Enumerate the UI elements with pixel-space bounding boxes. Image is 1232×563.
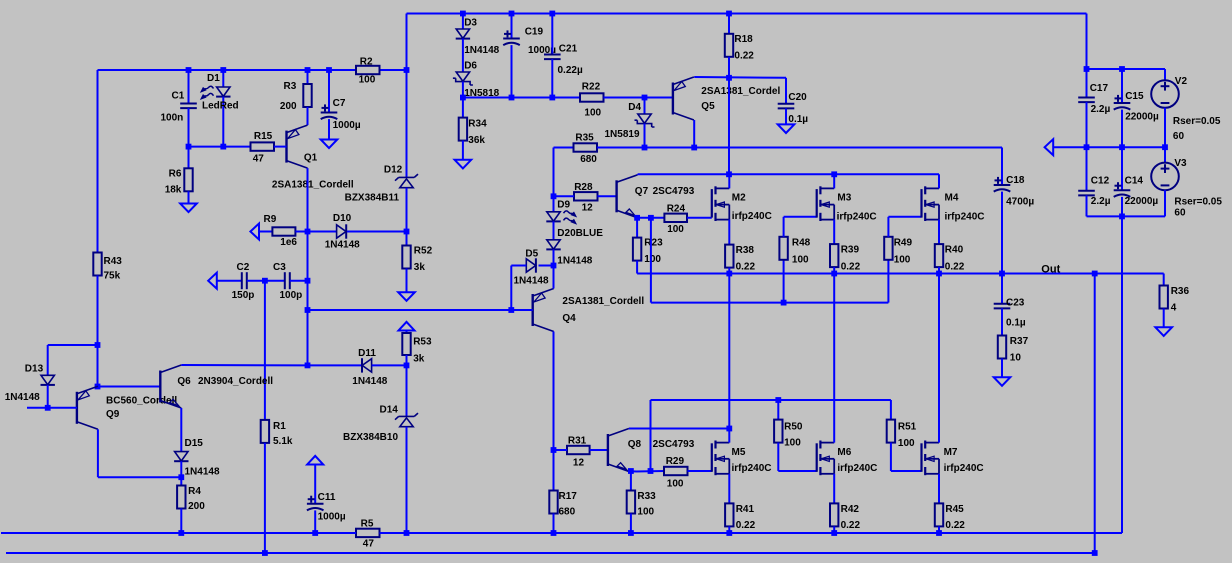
resistor R41 [725, 503, 733, 526]
resistor R28 [574, 192, 598, 200]
svg-text:R51: R51 [898, 422, 917, 433]
svg-text:1000µ: 1000µ [333, 120, 361, 131]
wire D11 to R53 column [372, 364, 407, 366]
wire +rail right drop [1086, 14, 1088, 70]
svg-text:R42: R42 [841, 504, 860, 515]
capacitor C12 [1086, 147, 1088, 191]
svg-text:R43: R43 [104, 256, 123, 267]
diode D3 [462, 14, 464, 30]
node R50 junction [775, 397, 781, 403]
svg-text:R34: R34 [468, 119, 487, 130]
node Q8-M5 drain junction [726, 426, 732, 432]
svg-text:680: 680 [580, 154, 597, 165]
wire R41 to rail [728, 526, 730, 533]
wire row97 horizontal [463, 97, 580, 99]
svg-text:R49: R49 [894, 238, 913, 249]
svg-text:D3: D3 [464, 18, 477, 29]
node Q6 collector row junction [305, 363, 311, 369]
wire R48 to M3 gate [783, 217, 785, 237]
svg-text:R17: R17 [559, 491, 578, 502]
svg-text:C3: C3 [273, 262, 286, 273]
wire Q9 base stub [27, 407, 77, 409]
svg-text:C14: C14 [1125, 176, 1144, 187]
node R41 rail junction [726, 530, 732, 536]
node R18 bottom junction [726, 75, 732, 81]
resistor R40 [935, 244, 943, 267]
wire feedback rail [6, 552, 1095, 554]
svg-text:V2: V2 [1175, 76, 1188, 87]
svg-text:C19: C19 [525, 27, 544, 38]
node C2C3 right junction [305, 278, 311, 284]
svg-text:1N5819: 1N5819 [605, 129, 640, 140]
svg-text:60: 60 [1173, 131, 1185, 142]
resistor R36 [1160, 286, 1168, 309]
svg-text:R33: R33 [637, 491, 656, 502]
svg-text:R3: R3 [284, 81, 297, 92]
node C1 bottom junction [186, 144, 192, 150]
svg-text:1N4148: 1N4148 [352, 376, 387, 387]
node R4 rail junction [178, 530, 184, 536]
wire M3 drain [833, 174, 835, 188]
wire mid power row [1053, 146, 1165, 148]
svg-text:Rser=0.05: Rser=0.05 [1174, 197, 1222, 208]
wire R9 to D10 [295, 231, 307, 233]
svg-text:D10: D10 [333, 213, 352, 224]
svg-text:Rser=0.05: Rser=0.05 [1173, 116, 1221, 127]
wire D5 anode drop [510, 266, 512, 311]
resistor R15 [251, 142, 275, 150]
MOSFET M3 [816, 189, 818, 218]
node Q8 emitter junction [628, 468, 634, 474]
svg-text:100p: 100p [280, 290, 303, 301]
node R31 junction [551, 447, 557, 453]
svg-text:100: 100 [644, 254, 661, 265]
wire minus rail drop [1121, 216, 1123, 533]
wire R33 to rail [630, 514, 632, 534]
svg-text:100: 100 [359, 75, 376, 86]
node R17 rail junction [551, 530, 557, 536]
node C21 bottom junction [549, 95, 555, 101]
svg-text:4: 4 [1171, 303, 1177, 314]
resistor R24 [664, 214, 687, 222]
MOSFET M7 [920, 443, 922, 472]
svg-text:1000µ: 1000µ [318, 512, 346, 523]
flag above C11 [307, 456, 323, 465]
transistor Q4 [532, 294, 534, 326]
node C14 bottom junction [1119, 214, 1125, 220]
wire M5 source [728, 474, 730, 504]
svg-text:R28: R28 [574, 182, 593, 193]
transistor Q5 [672, 83, 674, 115]
svg-text:2N3904_Cordell: 2N3904_Cordell [198, 376, 273, 387]
wire M6 source [833, 474, 835, 504]
resistor R23 [636, 218, 638, 238]
svg-text:irfp240C: irfp240C [732, 463, 772, 474]
resistor R33 [630, 471, 632, 491]
node C17 top junction [1084, 66, 1090, 72]
svg-text:Q6: Q6 [177, 376, 191, 387]
resistor R6 [188, 147, 190, 169]
wire Q1 collector vertical [307, 168, 309, 231]
svg-text:2.2µ: 2.2µ [1091, 104, 1111, 115]
wire R39 to out bus [833, 267, 835, 273]
wire Q1col to C2C3 [307, 232, 309, 281]
wire R36 to ground [1163, 309, 1165, 328]
capacitor C21 [551, 14, 553, 55]
wire R45 to rail [938, 526, 940, 533]
svg-text:R38: R38 [736, 245, 755, 256]
svg-text:C12: C12 [1091, 176, 1110, 187]
flag above R53 [399, 322, 415, 331]
wire M7 drain [938, 274, 940, 443]
wire output bus [637, 273, 1164, 275]
svg-text:M7: M7 [944, 447, 958, 458]
wire M4 source [938, 220, 940, 245]
transistor Q6 [159, 371, 161, 403]
svg-text:5.1k: 5.1k [273, 436, 293, 447]
node R38 out junction [726, 271, 732, 277]
svg-text:D6: D6 [464, 61, 477, 72]
resistor R22 [580, 93, 604, 101]
node V2-V3 junction [1162, 144, 1168, 150]
wire row70 left vertical [97, 70, 99, 253]
node C17 bottom junction [1084, 144, 1090, 150]
node M2 drain junction [726, 171, 732, 177]
flag input C2 [208, 273, 217, 289]
wire R22 to Q5 base [604, 97, 673, 99]
transistor Q9 [76, 392, 78, 424]
wire Q6 collector row [181, 364, 307, 366]
wire R29 to M5 gate [688, 470, 712, 472]
resistor R29 [664, 467, 688, 475]
capacitor C14 [1121, 147, 1123, 190]
node C2-C3 junction [247, 280, 285, 282]
wire Q5 collector vertical [693, 120, 695, 148]
wire R17 to rail [553, 514, 555, 534]
wire lower gate bus [651, 399, 891, 401]
svg-text:R5: R5 [361, 519, 374, 530]
capacitor C17 [1086, 69, 1088, 98]
node R2-D12 junction [404, 67, 410, 73]
svg-text:M6: M6 [837, 447, 851, 458]
svg-text:BC560_Cordell: BC560_Cordell [106, 396, 177, 407]
svg-text:2SC4793: 2SC4793 [653, 439, 695, 450]
wire D12 column upper [406, 14, 408, 71]
svg-text:D20BLUE: D20BLUE [557, 228, 603, 239]
svg-text:1N4148: 1N4148 [5, 392, 40, 403]
diode D5 [526, 259, 535, 272]
svg-text:D5: D5 [525, 249, 538, 260]
svg-text:2.2µ: 2.2µ [1091, 196, 1111, 207]
resistor R50 [777, 400, 779, 420]
wire M3 source [833, 220, 835, 245]
wire R24 to M2 gate [687, 217, 712, 219]
node C1 top junction [186, 67, 192, 73]
wire R1 column lower [264, 443, 266, 553]
node D13 bottom junction [45, 405, 51, 411]
wire R1 column upper [264, 281, 266, 420]
node D5 junction [551, 263, 557, 269]
svg-text:0.22: 0.22 [841, 262, 861, 273]
svg-text:Out: Out [1041, 264, 1060, 276]
wire drain bus [638, 173, 939, 175]
node D4 top junction [642, 95, 648, 101]
resistor R53 [406, 331, 408, 334]
svg-text:C11: C11 [318, 492, 336, 503]
svg-text:R4: R4 [188, 486, 201, 497]
resistor R48 [779, 237, 787, 260]
flag input R9 [250, 224, 259, 240]
wire R50 to M6 gate [777, 443, 779, 471]
wire Q7 emitter row [637, 217, 664, 219]
wire row146 horizontal [189, 146, 251, 148]
resistor R17 [553, 450, 555, 491]
wire Q4 collector vertical [553, 332, 555, 451]
svg-text:M3: M3 [837, 193, 851, 204]
ground under R37 [994, 377, 1011, 386]
wire R31 leads [554, 449, 568, 451]
wire M4 drain [938, 174, 940, 188]
voltage source V3 [1151, 163, 1179, 191]
node C21 top junction [549, 11, 555, 17]
svg-text:1N4148: 1N4148 [325, 240, 360, 251]
wire Q1col to Q6 collector row [307, 310, 309, 365]
svg-text:R29: R29 [666, 456, 685, 467]
svg-text:R41: R41 [736, 504, 755, 515]
node D5 drop junction [508, 307, 514, 313]
voltage source V2 [1151, 80, 1179, 108]
wire R28 leads [554, 195, 575, 197]
wire Q9-Q6 base link [98, 386, 161, 388]
wire R23 to out bus [636, 261, 638, 274]
svg-text:V3: V3 [1174, 158, 1187, 169]
wire V3 bottom lead [1164, 190, 1166, 216]
svg-text:R23: R23 [644, 238, 663, 249]
node R39 out junction [831, 271, 837, 277]
node D14 rail junction [404, 530, 410, 536]
wire +rail row69 [1087, 68, 1166, 70]
svg-text:irfp240C: irfp240C [837, 463, 877, 474]
svg-text:2SA1381_Cordel: 2SA1381_Cordel [701, 86, 780, 97]
svg-text:0.1µ: 0.1µ [1006, 318, 1026, 329]
svg-text:200: 200 [280, 101, 297, 112]
wire R43 to Q9 node [97, 276, 99, 387]
svg-text:100: 100 [784, 438, 801, 449]
svg-text:R24: R24 [667, 204, 686, 215]
svg-text:1N4148: 1N4148 [464, 45, 499, 56]
capacitor C20 [785, 78, 787, 104]
svg-text:R50: R50 [784, 422, 803, 433]
diode D11 [361, 358, 363, 372]
svg-text:0.1µ: 0.1µ [788, 114, 808, 125]
svg-text:Q1: Q1 [304, 153, 318, 164]
svg-text:C17: C17 [1090, 83, 1109, 94]
resistor R1 [261, 420, 269, 443]
wire Q5 emitter row [694, 76, 786, 79]
wire R35 corner vertical [553, 148, 555, 197]
wire Q4 base row [308, 309, 533, 311]
node D10 row junction [305, 229, 311, 235]
svg-text:0.22: 0.22 [841, 520, 861, 531]
wire top +rail [407, 13, 1087, 15]
svg-text:680: 680 [559, 507, 576, 518]
node R1 feedback junction [262, 550, 268, 556]
svg-text:C20: C20 [788, 92, 807, 103]
node Q5 collector junction [691, 145, 697, 151]
wire M2 drain [728, 174, 730, 188]
resistor R35 [574, 143, 598, 151]
wire upper gate bus [651, 302, 889, 304]
svg-text:100: 100 [637, 507, 654, 518]
svg-text:R52: R52 [414, 246, 433, 257]
svg-text:R2: R2 [360, 57, 373, 68]
svg-text:D13: D13 [25, 364, 44, 375]
resistor R39 [830, 244, 838, 267]
node C19 top junction [509, 11, 515, 17]
MOSFET M2 [711, 189, 713, 218]
resistor R4 [177, 486, 185, 509]
transistor Q1 [285, 131, 287, 163]
svg-text:18k: 18k [165, 185, 182, 196]
wire out to R36 [1163, 274, 1165, 286]
capacitor C23 [1001, 274, 1003, 304]
node lower gate feed junction [648, 468, 654, 474]
wire D15 to R4 [180, 461, 182, 485]
node C19 bottom junction [509, 95, 515, 101]
svg-text:C23: C23 [1006, 298, 1025, 309]
svg-text:Q9: Q9 [106, 409, 120, 420]
capacitor C15 [1121, 69, 1123, 103]
ground under R52 [398, 292, 415, 301]
svg-text:1N4148: 1N4148 [185, 467, 220, 478]
svg-text:R18: R18 [734, 34, 753, 45]
svg-text:0.22µ: 0.22µ [558, 65, 583, 76]
node M3 drain junction [831, 171, 837, 177]
diode D6 schottky [462, 39, 464, 72]
wire Q4 emitter vertical [553, 266, 555, 289]
svg-text:R9: R9 [264, 214, 277, 225]
svg-text:R22: R22 [582, 82, 601, 93]
svg-text:BZX384B11: BZX384B11 [345, 193, 400, 204]
svg-text:LedRed: LedRed [202, 101, 239, 112]
svg-text:2SA1381_Cordell: 2SA1381_Cordell [272, 180, 354, 191]
svg-text:C21: C21 [559, 44, 578, 55]
svg-text:1N4148: 1N4148 [514, 276, 549, 287]
wire negative rail left [1, 532, 356, 534]
svg-text:3k: 3k [413, 354, 425, 365]
resistor R5 [356, 529, 380, 537]
svg-text:M4: M4 [945, 193, 959, 204]
transistor Q8 [607, 434, 609, 466]
wire V2 top lead [1164, 69, 1166, 80]
resistor R52 [406, 232, 408, 246]
svg-text:R15: R15 [254, 131, 273, 142]
wire Q1col to base row [307, 281, 309, 310]
svg-text:R48: R48 [792, 238, 811, 249]
node D6-R34 junction [460, 95, 466, 101]
wire R42 to rail [833, 526, 835, 533]
wire Q9 collector path [97, 429, 99, 477]
diode D4 schottky zener [644, 98, 646, 115]
node Q9 emitter junction [95, 384, 101, 390]
node D1 top junction [220, 67, 226, 73]
capacitor C3 [284, 272, 286, 289]
resistor R34 [462, 98, 464, 118]
wire D14 to rail [406, 427, 408, 533]
svg-text:100: 100 [898, 438, 915, 449]
node D1 bottom junction [220, 144, 226, 150]
wire R51 to M7 gate [890, 443, 892, 471]
svg-text:R45: R45 [945, 504, 964, 515]
svg-text:Q4: Q4 [562, 313, 576, 324]
svg-text:irfp240C: irfp240C [945, 212, 985, 223]
wire R48 riser [783, 260, 785, 303]
MOSFET M4 [920, 189, 922, 218]
svg-text:R40: R40 [945, 245, 964, 256]
svg-text:C7: C7 [333, 98, 346, 109]
svg-text:BZX384B10: BZX384B10 [343, 432, 398, 443]
node R43-D13 junction [95, 342, 101, 348]
node Q4 base row junction [305, 307, 311, 313]
node R3 top junction [305, 67, 311, 73]
wire D10 to D12 column [347, 231, 407, 233]
wire out sense drop [1094, 274, 1096, 554]
node C11 rail junction [312, 530, 318, 536]
wire row147 middle [597, 147, 1002, 149]
wire R49 riser [887, 260, 889, 303]
wire R4 to rail [180, 509, 182, 534]
wire Q6 emitter drop [180, 408, 182, 452]
resistor R51 [890, 400, 892, 420]
svg-text:C1: C1 [172, 91, 185, 102]
transistor Q7 [615, 180, 617, 212]
node C18 out junction [999, 271, 1005, 277]
resistor R43 [93, 253, 101, 276]
svg-text:0.22: 0.22 [736, 262, 756, 273]
resistor R3 [307, 70, 309, 84]
svg-text:36k: 36k [468, 135, 485, 146]
svg-text:R39: R39 [841, 245, 860, 256]
svg-text:D11: D11 [358, 348, 376, 359]
svg-text:100: 100 [667, 224, 684, 235]
wire row147 left segment [554, 147, 574, 149]
svg-text:100: 100 [584, 108, 601, 119]
capacitor C19 [511, 14, 513, 39]
svg-text:D9: D9 [557, 200, 570, 211]
svg-text:150p: 150p [232, 290, 255, 301]
svg-text:75k: 75k [104, 271, 121, 282]
svg-text:10: 10 [1010, 353, 1022, 364]
svg-text:12: 12 [582, 203, 594, 214]
node C7 top junction [326, 67, 332, 73]
svg-text:22000µ: 22000µ [1125, 196, 1159, 207]
wire D12 lower lead [406, 188, 408, 232]
svg-text:47: 47 [253, 154, 265, 165]
wire V2 bottom lead [1164, 108, 1166, 147]
ground under C7 [321, 140, 338, 149]
node R28 junction [551, 193, 557, 199]
svg-text:1e6: 1e6 [280, 237, 297, 248]
node gate feed junction [648, 215, 654, 221]
ground under R6 [180, 204, 197, 213]
svg-text:0.22: 0.22 [736, 520, 756, 531]
svg-text:100: 100 [667, 479, 684, 490]
svg-text:irfp240C: irfp240C [837, 212, 877, 223]
zener D12 [395, 174, 418, 181]
node C15 top junction [1119, 66, 1125, 72]
svg-text:100: 100 [792, 255, 809, 266]
zener D14 [395, 413, 418, 420]
